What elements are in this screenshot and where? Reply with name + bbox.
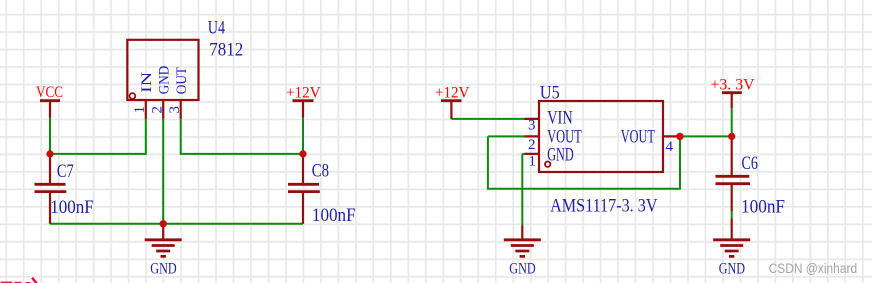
svg-text:3: 3 [167,106,183,114]
svg-text:7812: 7812 [209,40,243,61]
svg-text:U5: U5 [540,82,560,103]
svg-text:U4: U4 [208,18,226,39]
svg-text:OUT: OUT [174,67,190,94]
svg-text:+12V: +12V [435,85,470,102]
svg-text:100nF: 100nF [50,197,94,218]
svg-text:GND: GND [509,260,535,277]
svg-text:IN: IN [139,72,155,93]
svg-text:CSDN @xinhard: CSDN @xinhard [769,261,858,276]
svg-text:1: 1 [132,106,148,114]
svg-text:GND: GND [157,66,173,95]
svg-text:100nF: 100nF [312,205,356,226]
svg-text:VCC: VCC [36,84,63,101]
svg-text:C7: C7 [57,161,74,182]
svg-text:4: 4 [666,139,674,155]
svg-text:1: 1 [529,154,537,170]
svg-text:AMS1117-3. 3V: AMS1117-3. 3V [550,195,658,216]
svg-text:VOUT: VOUT [621,127,655,148]
svg-text:+12V: +12V [286,85,321,102]
svg-text:+3. 3V: +3. 3V [711,76,755,93]
svg-text:2: 2 [528,137,536,153]
svg-text:100nF: 100nF [741,196,785,217]
svg-text:GND: GND [719,260,745,277]
svg-text:C6: C6 [742,153,759,174]
svg-text:VIN: VIN [547,108,573,129]
svg-text:GND: GND [150,260,176,277]
svg-text:2: 2 [149,106,165,114]
svg-text:3: 3 [528,118,536,134]
svg-text:C8: C8 [312,161,329,182]
svg-text:GND: GND [547,145,574,166]
